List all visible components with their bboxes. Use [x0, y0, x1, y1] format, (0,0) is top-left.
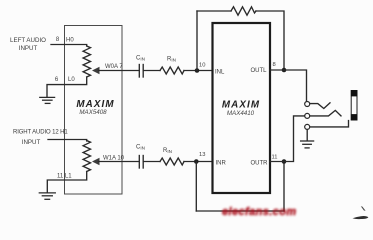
- svg-text:MAXIM: MAXIM: [222, 100, 260, 111]
- capacitor CIN1: [139, 65, 143, 78]
- svg-text:8: 8: [273, 62, 276, 68]
- potentiometer P1 (left/bottom, H1-L1): [83, 141, 90, 172]
- wire RIN1 to INL: [184, 70, 213, 72]
- svg-text:10: 10: [199, 63, 205, 69]
- svg-text:RIGHT AUDIO 12 H1: RIGHT AUDIO 12 H1: [13, 130, 68, 136]
- svg-text:13: 13: [199, 152, 205, 158]
- ground G2: [39, 193, 55, 199]
- svg-text:LEFT AUDIO: LEFT AUDIO: [10, 37, 46, 44]
- wire sleeve to ground: [306, 130, 308, 140]
- wiper arrow W0A: [92, 67, 100, 75]
- svg-text:RIN: RIN: [163, 148, 172, 154]
- wire W1A to CIN2: [99, 161, 140, 163]
- wire feedback bottom: [196, 210, 284, 212]
- corner mark small dash: [361, 206, 366, 211]
- label RIGHT AUDIO INPUT: [13, 130, 68, 146]
- resistor RIN2: [160, 158, 184, 165]
- label LEFT AUDIO INPUT: [10, 37, 46, 52]
- svg-text:11: 11: [272, 155, 278, 161]
- svg-text:OUTR: OUTR: [251, 160, 269, 166]
- wire W0A to CIN1: [99, 70, 140, 72]
- svg-text:RIN: RIN: [167, 57, 176, 63]
- svg-text:W1A 10: W1A 10: [103, 156, 125, 162]
- svg-text:INR: INR: [216, 160, 227, 166]
- svg-text:OUTL: OUTL: [251, 68, 268, 74]
- svg-text:INL: INL: [215, 69, 225, 75]
- svg-text:CIN: CIN: [136, 145, 145, 151]
- wire feedback left riser: [196, 11, 198, 71]
- wire feedback bottom left drop: [195, 162, 197, 212]
- svg-text:CIN: CIN: [136, 56, 145, 62]
- svg-text:elecfans.com: elecfans.com: [222, 206, 297, 218]
- wire feedback top right: [256, 11, 284, 70]
- node junction INR: [194, 159, 199, 164]
- jack tip contact circle: [305, 102, 310, 107]
- svg-text:INPUT: INPUT: [22, 139, 41, 146]
- capacitor CIN2: [139, 156, 143, 169]
- wire OUTR to jack ring: [270, 116, 305, 162]
- jack sleeve contact circle: [305, 124, 310, 129]
- jack tip switch lever: [310, 103, 330, 109]
- wire CIN2 to RIN2: [143, 161, 160, 163]
- svg-text:INPUT: INPUT: [19, 45, 38, 52]
- op-amp U2 MAX4410 box: [213, 23, 271, 193]
- ground G1: [40, 97, 55, 103]
- op-amp U1 MAX5408 box: [65, 26, 123, 195]
- wire L0 to ground: [47, 77, 87, 97]
- jack ring contact circle: [305, 113, 310, 118]
- wire CIN1 to RIN1: [143, 70, 160, 72]
- node junction OUTL: [282, 68, 287, 73]
- wire RIN2 to INR: [184, 161, 213, 163]
- wire L1 to ground: [47, 172, 86, 193]
- svg-text:L0: L0: [68, 77, 75, 83]
- headphone jack body: [351, 90, 357, 120]
- svg-text:H0: H0: [66, 38, 74, 44]
- wire right audio input to H1: [48, 140, 87, 142]
- svg-text:11 L1: 11 L1: [57, 174, 72, 180]
- node junction INL: [195, 68, 200, 73]
- corner mark swoosh: [353, 216, 369, 219]
- jack ring switch lever: [310, 110, 341, 116]
- wire left audio input to H0: [51, 45, 87, 47]
- potentiometer P0 (left/top, H0-L0): [83, 46, 90, 77]
- wire sleeve to jack body: [310, 121, 349, 127]
- wiper arrow W1A: [92, 158, 100, 166]
- wire feedback top left: [197, 10, 231, 12]
- wire OUTL to jack tip: [270, 70, 307, 101]
- resistor RIN1: [160, 67, 184, 74]
- node junction OUTR: [282, 159, 287, 164]
- ground G3: [301, 141, 314, 148]
- wire feedback bottom right riser: [283, 162, 285, 212]
- resistor feedback RF1: [231, 7, 256, 15]
- svg-text:MAX4410: MAX4410: [227, 110, 255, 117]
- svg-text:MAX5408: MAX5408: [79, 109, 107, 116]
- svg-text:W0A 7: W0A 7: [105, 64, 123, 70]
